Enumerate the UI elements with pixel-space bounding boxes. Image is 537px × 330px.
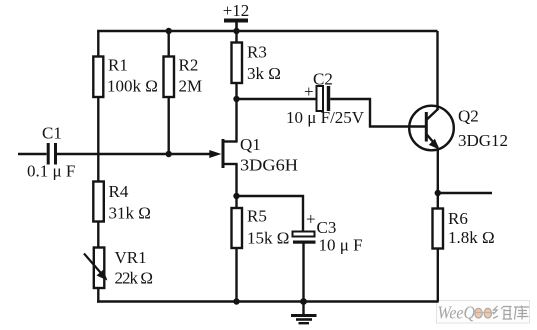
- wire left column: VR1 to bottom rail: [97, 288, 99, 303]
- svg-text:C3: C3: [317, 218, 337, 237]
- wire Q1 emitter down to node: [235, 164, 237, 196]
- resistor R6: [433, 209, 495, 249]
- svg-text:15k Ω: 15k Ω: [247, 229, 289, 248]
- variable resistor VR1: [84, 248, 153, 289]
- resistor R4: [93, 182, 151, 223]
- wire left column: R1 to R4 (crosses input line): [97, 97, 99, 182]
- svg-text:R3: R3: [247, 43, 267, 62]
- wire top +12 rail: [97, 30, 437, 32]
- wire left column: rail to R1: [97, 31, 99, 57]
- wire R3 bottom to node: [235, 83, 237, 99]
- capacitor C2: [286, 70, 365, 128]
- wire left column: R4 to VR1: [97, 222, 99, 249]
- ground: [291, 302, 317, 324]
- wire R6 to bottom rail: [437, 249, 439, 302]
- transistor Q1: [223, 135, 298, 175]
- resistor R3: [232, 43, 281, 84]
- wire bottom ground rail: [97, 300, 439, 302]
- wire node to C3: [237, 196, 304, 232]
- svg-text:R1: R1: [108, 56, 128, 75]
- wire Q1 collector: [235, 99, 237, 142]
- wire node to R6: [437, 193, 439, 209]
- svg-text:100k Ω: 100k Ω: [107, 77, 158, 96]
- svg-text:Q2: Q2: [458, 107, 479, 126]
- svg-text:R5: R5: [247, 207, 267, 226]
- svg-text:Q1: Q1: [240, 135, 261, 154]
- wire Q2 collector from rail: [436, 31, 438, 110]
- capacitor C3: [293, 210, 363, 255]
- wire input left of C1: [18, 153, 47, 155]
- svg-text:R2: R2: [179, 56, 199, 75]
- wire output: [438, 192, 492, 194]
- svg-text:1.8k Ω: 1.8k Ω: [448, 228, 495, 247]
- resistor R1: [93, 56, 158, 98]
- node junction: R2 bottom on input line: [166, 151, 172, 157]
- wire C2 to Q2 base: [330, 99, 425, 127]
- wire C3 to bottom rail: [302, 244, 304, 302]
- svg-text:R6: R6: [448, 209, 468, 228]
- power supply +12: [223, 1, 250, 31]
- svg-text:0.1 μ F: 0.1 μ F: [27, 162, 75, 181]
- wire R2 column: rail to R2: [167, 31, 169, 57]
- watermark WeeQoo text: [438, 303, 530, 323]
- svg-text:2M: 2M: [179, 77, 203, 96]
- svg-text:3DG6H: 3DG6H: [240, 156, 298, 175]
- svg-text:+12: +12: [223, 1, 250, 20]
- svg-text:31k Ω: 31k Ω: [109, 204, 151, 223]
- svg-text:3k Ω: 3k Ω: [247, 64, 281, 83]
- node junction: Q1 emitter / R5 / C3: [233, 193, 239, 199]
- wire node to C2: [237, 98, 318, 100]
- node junction: emitter / output / R6: [435, 190, 441, 196]
- svg-text:+: +: [306, 210, 316, 229]
- wire input C1 to Q1 base: [57, 153, 213, 155]
- transistor Q2: [409, 106, 508, 151]
- node junction: R5 bottom on rail: [233, 298, 239, 304]
- watermark WeeQoo box: [437, 301, 530, 324]
- node junction: +12 to rail: [233, 28, 239, 34]
- svg-text:22k Ω: 22k Ω: [115, 269, 154, 288]
- svg-text:VR1: VR1: [115, 248, 147, 267]
- wire Q2 emitter down: [437, 148, 439, 193]
- wire node to R5: [235, 196, 237, 209]
- svg-text:C1: C1: [42, 124, 62, 143]
- svg-text:WeeQ: WeeQ: [438, 303, 476, 323]
- wire R3 column: rail to R3: [235, 31, 237, 43]
- wire R2 column: R2 to input line: [167, 97, 169, 154]
- svg-text:10 μ F: 10 μ F: [319, 236, 363, 255]
- capacitor C1: [27, 124, 75, 181]
- arrow into Q1 base: [209, 150, 221, 158]
- resistor R2: [164, 56, 203, 98]
- node junction: R2 top on rail: [166, 28, 172, 34]
- svg-text:R4: R4: [109, 182, 129, 201]
- node junction: R3 / C2 / Q1 collector: [233, 96, 239, 102]
- svg-text:3DG12: 3DG12: [458, 131, 508, 150]
- resistor R5: [232, 207, 290, 249]
- svg-text:10 μ F/25V: 10 μ F/25V: [286, 108, 365, 127]
- svg-text:+: +: [304, 82, 314, 101]
- node junction: C3 / ground on rail: [300, 298, 307, 305]
- wire R5 to bottom rail: [235, 248, 237, 302]
